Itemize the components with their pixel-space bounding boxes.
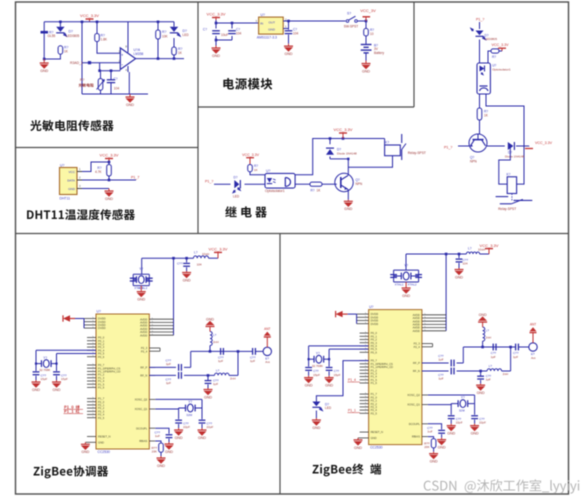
wire xosc q1 (terminal)	[428, 404, 451, 406]
led D2 branch	[173, 22, 175, 59]
ground (32k left) (coordinator)	[32, 380, 41, 392]
svg-text:L?: L?	[486, 329, 490, 333]
svg-text:RBIAS: RBIAS	[139, 439, 147, 443]
IC U6 right pin stubs	[149, 318, 173, 441]
svg-text:2nH: 2nH	[486, 336, 492, 340]
node VCC_3.3V (opto drive)	[242, 153, 260, 164]
node VCC_3.3V (relay coil)	[334, 127, 353, 138]
svg-text:U?: U?	[261, 13, 265, 17]
ground (relay driver)	[344, 200, 353, 211]
svg-text:U?: U?	[369, 305, 373, 309]
ground (crystal loop) (terminal)	[402, 282, 411, 298]
svg-text:IN: IN	[260, 22, 263, 26]
crystal Y1 loop wires (coordinator)	[133, 258, 149, 285]
power mark (antenna) (terminal)	[530, 323, 537, 343]
resistor R12 (base, right)	[477, 108, 489, 134]
svg-text:GND: GND	[362, 69, 370, 73]
svg-text:GND: GND	[68, 187, 76, 191]
svg-text:U?: U?	[60, 163, 64, 167]
ground (32k right) (terminal)	[325, 376, 334, 388]
svg-text:P1_?: P1_?	[444, 145, 452, 149]
svg-text:8: 8	[125, 44, 127, 48]
crystal Y2 32.768K (terminal)	[308, 352, 331, 368]
svg-text:1pF: 1pF	[491, 355, 496, 359]
ground (32k left) (terminal)	[304, 376, 313, 388]
divider: bottom of photoresistor sensor box	[16, 147, 199, 149]
svg-text:Diode 1N4148: Diode 1N4148	[505, 155, 525, 159]
wire 32k xtal top (coordinator)	[36, 350, 96, 371]
wire regulator input rail	[215, 20, 259, 24]
svg-text:VCC: VCC	[68, 170, 75, 174]
IC U7 right pin names	[407, 313, 420, 439]
svg-text:32.768K: 32.768K	[39, 368, 50, 372]
capacitor C (RF_N series) (terminal)	[438, 368, 454, 381]
wire op-amp output	[136, 57, 184, 60]
inductor L (RF_N series) (terminal)	[487, 364, 508, 376]
svg-text:CC2530: CC2530	[370, 446, 383, 450]
svg-text:D?: D?	[234, 176, 238, 180]
crystal Y1 32MHz (coordinator)	[133, 267, 149, 290]
ground (32M right) (terminal)	[470, 424, 479, 436]
svg-text:1: 1	[79, 167, 81, 171]
svg-text:ANT: ANT	[264, 327, 270, 331]
capacitor C (xtal right) (coordinator)	[146, 278, 153, 281]
ground (RBIAS) (terminal)	[429, 452, 438, 464]
svg-text:15pF: 15pF	[334, 373, 341, 377]
resistor R (RBIAS 20K) (coordinator)	[151, 441, 163, 456]
svg-text:1uF: 1uF	[427, 430, 432, 434]
wire opto collector up-over	[295, 137, 385, 175]
IC U7 left pin stubs	[357, 313, 369, 438]
wire RF top rail (coordinator)	[191, 350, 240, 353]
led D7 (terminal indicator)	[312, 402, 331, 411]
svg-text:P0_6: P0_6	[98, 355, 105, 359]
wire top rail (terminal)	[406, 253, 489, 256]
svg-text:20K: 20K	[152, 450, 157, 454]
wire relay K2 feed	[499, 146, 511, 184]
title: ZigBee协调器	[33, 466, 108, 479]
svg-text:Optoisolator1: Optoisolator1	[265, 189, 285, 193]
crystal Y2 32.768K (coordinator)	[35, 356, 58, 372]
svg-text:DCOUPL: DCOUPL	[136, 426, 148, 430]
transistor Q1 NPN	[335, 159, 363, 200]
IC U6 CC2530 body	[96, 310, 149, 455]
svg-text:GND: GND	[198, 436, 206, 440]
svg-text:SW-SPST: SW-SPST	[344, 24, 359, 28]
wire RF junction drop (terminal)	[510, 347, 512, 371]
svg-text:10uH: 10uH	[202, 252, 209, 256]
svg-text:1.8K: 1.8K	[101, 37, 108, 41]
wire RF junction drop (coordinator)	[237, 351, 239, 375]
svg-text:32M: 32M	[459, 409, 465, 413]
inductor L (RF_N series) (coordinator)	[215, 369, 236, 381]
svg-text:4.7K: 4.7K	[95, 170, 102, 174]
svg-text:104: 104	[293, 31, 299, 35]
title: 继电器	[225, 206, 267, 217]
svg-text:Y?: Y?	[43, 356, 47, 360]
svg-text:C?: C?	[203, 27, 207, 31]
svg-text:P1_1: P1_1	[348, 409, 356, 413]
svg-text:K?: K?	[385, 141, 389, 145]
wire antenna feed (terminal)	[511, 346, 516, 348]
net label P1_7	[131, 175, 139, 179]
node VCC_3V (battery side)	[360, 8, 376, 21]
svg-text:4: 4	[125, 68, 127, 72]
svg-text:1pF: 1pF	[250, 359, 255, 363]
divider: right edge of photoresistor/DHT11 column	[197, 2, 199, 234]
wire 32k xtal bottom (coordinator)	[57, 354, 97, 372]
svg-text:GND: GND	[471, 432, 479, 436]
svg-text:XOSC_Q1: XOSC_Q1	[135, 407, 148, 411]
wire DHT11 gnd	[82, 188, 109, 190]
resistor R10 base	[310, 182, 337, 193]
title: 电源模块	[223, 78, 272, 90]
capacitor C (DCOUPL) (coordinator)	[154, 428, 172, 442]
svg-text:OUT: OUT	[268, 20, 275, 24]
capacitor C (RF_P series) (terminal)	[438, 354, 454, 366]
svg-text:L?: L?	[213, 333, 217, 337]
wire 32k xtal bottom (terminal)	[329, 349, 369, 367]
svg-text:D?: D?	[69, 30, 73, 34]
svg-text:GND: GND	[175, 436, 183, 440]
svg-text:GND: GND	[137, 298, 145, 302]
ground (RBIAS) (coordinator)	[157, 456, 166, 468]
antenna E1 (terminal)	[529, 343, 537, 360]
ground (RF shunt cap) (terminal)	[476, 384, 485, 395]
svg-text:10uH: 10uH	[478, 248, 485, 252]
svg-text:1K: 1K	[254, 168, 258, 172]
svg-text:1pF: 1pF	[213, 382, 218, 386]
ground (RF shunt cap) (coordinator)	[204, 388, 213, 399]
svg-text:1K: 1K	[317, 189, 322, 193]
svg-text:GND: GND	[438, 446, 446, 450]
capacitor C decoupling (terminal)	[456, 254, 469, 268]
capacitor C (32M right) (coordinator)	[199, 408, 214, 429]
crystal Y3 32M (terminal)	[451, 396, 474, 413]
capacitor C (32k right) (coordinator)	[53, 372, 68, 381]
svg-text:VCC_3.3V: VCC_3.3V	[535, 141, 553, 145]
label R4 光敏电阻	[79, 78, 94, 87]
wire led to opto	[245, 183, 266, 185]
net label P1_4 (terminal)	[348, 378, 361, 382]
wire supply bus drop (coordinator)	[173, 258, 175, 335]
capacitor C1 (op-amp filter)	[107, 69, 120, 94]
svg-text:XOSC_Q1: XOSC_Q1	[407, 403, 420, 407]
svg-text:C?: C?	[114, 77, 118, 81]
wire right loop top	[486, 94, 524, 184]
title: DHT11温湿度传感器	[27, 209, 135, 220]
capacitor C (antenna series) (terminal)	[513, 344, 519, 359]
capacitor C (RF_P series) (coordinator)	[165, 359, 181, 371]
svg-text:GND: GND	[98, 440, 104, 444]
wire 32k xtal top (terminal)	[309, 346, 369, 367]
svg-text:AVDD: AVDD	[140, 333, 147, 337]
svg-text:VCC_3.3V: VCC_3.3V	[242, 153, 260, 157]
svg-text:GND: GND	[268, 27, 276, 31]
svg-text:DVDD: DVDD	[98, 326, 106, 330]
svg-text:15pF: 15pF	[61, 377, 68, 381]
wire collector to diode	[487, 145, 512, 147]
IC U7 left pin names	[371, 312, 393, 440]
capacitor C (32M right) (terminal)	[471, 404, 486, 425]
switch S1 SW-SPST	[344, 12, 359, 29]
divider: between ZigBee coordinator and terminal boxes	[279, 234, 281, 495]
svg-text:GND: GND	[430, 460, 438, 464]
svg-text:15pF: 15pF	[313, 373, 320, 377]
wire mid vertical (op-amp supply column)	[81, 21, 84, 95]
wire VDD bus (U7)	[348, 314, 357, 324]
title: ZigBee终端	[312, 464, 381, 477]
svg-text:2nH: 2nH	[503, 372, 509, 376]
wire RF_N path (terminal)	[422, 370, 511, 372]
capacitor C (DCOUPL) (terminal)	[427, 424, 445, 438]
capacitor C (RF shunt) (coordinator)	[205, 374, 219, 388]
watermark: CSDN @沐欣工作室_lyyiyi	[424, 479, 580, 493]
optocoupler U5 (vertical)	[477, 63, 511, 94]
svg-text:22pF: 22pF	[479, 421, 486, 425]
crystal Y1 loop wires (terminal)	[394, 254, 419, 282]
ground (terminal decoupling)	[455, 268, 464, 279]
svg-text:AMS1117-3.3: AMS1117-3.3	[257, 36, 277, 40]
wire bottom rail (photo sensor)	[82, 72, 148, 94]
ground (32M left) (coordinator)	[174, 428, 183, 440]
svg-text:32M: 32M	[186, 413, 192, 417]
wire feedback lower	[98, 63, 120, 72]
inductor L (RF shunt) (coordinator)	[210, 332, 219, 352]
svg-text:DCOUPL: DCOUPL	[409, 422, 421, 426]
svg-text:Relay-SPST: Relay-SPST	[498, 207, 516, 211]
svg-text:GND: GND	[477, 391, 485, 395]
svg-text:RESET_N: RESET_N	[98, 435, 110, 439]
wire top rail (photo sensor)	[44, 21, 174, 23]
wire VDD bus (U6)	[75, 319, 84, 329]
svg-text:GND: GND	[305, 384, 313, 388]
inductor L2 (terminal supply)	[466, 246, 485, 254]
svg-text:GND: GND	[40, 69, 48, 73]
svg-text:NPN: NPN	[356, 182, 363, 186]
svg-text:P1_?: P1_?	[205, 180, 213, 184]
svg-text:1K: 1K	[484, 114, 489, 118]
svg-text:1pF: 1pF	[218, 359, 223, 363]
crystal Y3 32M (coordinator)	[179, 400, 202, 417]
optocoupler U4	[265, 169, 295, 193]
IC U7 right pin stubs	[422, 313, 446, 436]
capacitor C (32M left) (terminal)	[448, 404, 463, 425]
capacitor C (32k left) (coordinator)	[33, 372, 48, 381]
wire RF_N path (coordinator)	[149, 374, 238, 376]
ground (DHT11)	[105, 189, 114, 201]
svg-text:DATA: DATA	[67, 178, 76, 182]
title: 光敏电阻传感器	[30, 120, 113, 131]
op-amp U1A LM358	[119, 22, 144, 72]
svg-text:2: 2	[79, 176, 81, 180]
resistor R11 (right opto series)	[488, 49, 502, 63]
node VCC_3.3V (coordinator)	[209, 247, 228, 259]
wire top rail (coordinator)	[142, 257, 218, 260]
IC U6 left pin names	[98, 317, 120, 445]
svg-text:Diode 1N4148: Diode 1N4148	[337, 151, 357, 155]
svg-text:VCC_3.3V: VCC_3.3V	[209, 247, 228, 252]
capacitor C1 input electrolytic	[203, 27, 228, 36]
svg-text:L?: L?	[489, 364, 493, 368]
svg-text:2nH: 2nH	[230, 377, 236, 381]
wire xosc q2 (terminal)	[428, 395, 475, 404]
svg-text:1pF: 1pF	[166, 381, 171, 385]
svg-text:XOSC_Q2: XOSC_Q2	[407, 393, 420, 397]
wire RF_P path (coordinator)	[149, 351, 190, 367]
svg-text:1pF: 1pF	[438, 377, 443, 381]
wire opto out to resistor	[479, 94, 481, 108]
wire supply bus drop (terminal)	[445, 254, 447, 331]
svg-text:VCC_3.3V: VCC_3.3V	[100, 153, 119, 158]
wire to antenna (terminal)	[519, 346, 529, 348]
svg-text:3: 3	[79, 184, 81, 188]
svg-text:Y?: Y?	[404, 264, 408, 268]
svg-text:GND: GND	[402, 294, 410, 298]
resistor R6	[172, 47, 183, 55]
resistor R8 pull-up	[95, 162, 111, 180]
net label P1_1 (terminal)	[348, 409, 361, 413]
capacitor C (32k left) (terminal)	[305, 368, 320, 377]
ground (power module input)	[212, 46, 221, 58]
svg-text:VCC_3.3V: VCC_3.3V	[207, 12, 226, 17]
node VCC_3.3V input (power module)	[207, 12, 226, 20]
resistor R (RBIAS 20K) (terminal)	[424, 437, 436, 452]
svg-text:P2_5: P2_5	[371, 411, 378, 415]
ground up (RF shunt L) (coordinator)	[206, 318, 215, 332]
svg-text:C??: C??	[177, 261, 183, 265]
svg-text:LED: LED	[183, 33, 190, 37]
svg-text:Relay-SPST: Relay-SPST	[408, 151, 426, 155]
svg-text:GND: GND	[312, 426, 320, 430]
svg-text:P2_5: P2_5	[98, 416, 105, 420]
svg-text:GND: GND	[447, 432, 455, 436]
ground (32k right) (coordinator)	[52, 380, 61, 392]
ground (coordinator GND pin)	[81, 442, 90, 454]
net label R3AD-1	[70, 61, 83, 65]
svg-text:VCC_3V: VCC_3V	[360, 8, 376, 13]
svg-text:GND: GND	[126, 103, 134, 107]
node VCC_3.3V (terminal)	[480, 243, 499, 254]
photoresistor R4 光敏电阻	[97, 71, 105, 94]
diode D6 (right)	[505, 142, 529, 159]
svg-text:RF_N: RF_N	[140, 374, 147, 378]
svg-text:Ant: Ant	[265, 360, 270, 364]
svg-text:P1_4: P1_4	[348, 378, 356, 382]
svg-text:GND: GND	[479, 313, 487, 317]
wire RF_P path (terminal)	[422, 347, 463, 363]
ground (DCOUPL) (terminal)	[437, 438, 446, 450]
capacitor C (RF mid series) (coordinator)	[218, 348, 224, 363]
svg-text:1pF: 1pF	[438, 358, 443, 362]
svg-text:P2_4: P2_4	[141, 349, 148, 353]
svg-text:RF_P: RF_P	[413, 361, 420, 365]
svg-text:DVDD: DVDD	[371, 322, 379, 326]
wire to antenna (coordinator)	[256, 350, 264, 352]
svg-text:S?: S?	[347, 12, 351, 16]
svg-text:104: 104	[197, 262, 202, 266]
svg-text:20K: 20K	[424, 445, 429, 449]
svg-text:VCC_3.3V: VCC_3.3V	[492, 43, 510, 47]
flyback diode D4	[326, 139, 357, 159]
capacitor C (RF mid series) (terminal)	[491, 344, 497, 359]
wire xosc q2 (coordinator)	[155, 399, 202, 408]
svg-text:GND: GND	[344, 207, 352, 211]
svg-text:Battery: Battery	[374, 51, 385, 55]
ground (terminal GND pin)	[354, 438, 363, 450]
svg-text:ANT: ANT	[530, 323, 536, 327]
antenna E1 (coordinator)	[263, 347, 271, 364]
led D1	[56, 22, 79, 38]
IC U7 CC2530 body	[369, 305, 422, 450]
capacitor C (RF shunt) (terminal)	[477, 370, 491, 384]
ground (DCOUPL) (coordinator)	[165, 442, 174, 454]
wire RF top rail (terminal)	[463, 346, 512, 349]
wire battery column	[365, 21, 367, 43]
svg-text:DHT11: DHT11	[60, 196, 71, 200]
node VCC_3.3V (DHT11)	[100, 153, 119, 161]
resistor R5 branch	[157, 21, 160, 59]
sensor U3 DHT11 body	[60, 163, 78, 200]
svg-text:GND: GND	[81, 450, 89, 454]
svg-text:LED: LED	[233, 194, 240, 198]
capacitor C (RF_N series) (coordinator)	[165, 372, 181, 385]
svg-text:P0_6: P0_6	[371, 350, 378, 354]
svg-text:2nH: 2nH	[213, 340, 219, 344]
node VCC_3.3V power port (photo sensor)	[80, 13, 99, 22]
transistor Q2 NPN (right)	[469, 134, 487, 163]
svg-text:P1_7: P1_7	[131, 175, 139, 179]
led D3 (relay input indicator)	[233, 176, 240, 199]
relay K1 coil	[348, 139, 400, 168]
svg-text:U?: U?	[266, 169, 270, 173]
svg-text:104: 104	[236, 31, 242, 35]
svg-text:104: 104	[463, 262, 468, 266]
svg-text:VCC_3.3V: VCC_3.3V	[480, 243, 499, 248]
resistor R1	[95, 33, 108, 41]
wire switch to battery node	[357, 20, 367, 23]
svg-text:22pF: 22pF	[207, 425, 214, 429]
wire base resistor path	[295, 183, 310, 185]
svg-text:GL55: GL55	[48, 34, 56, 38]
node VCC_3.3V (right diode)	[525, 141, 553, 148]
svg-text:AVDD: AVDD	[413, 329, 420, 333]
svg-text:Optoisolator1: Optoisolator1	[492, 67, 511, 71]
svg-text:GND: GND	[455, 275, 463, 279]
ground (32M left) (terminal)	[447, 424, 456, 436]
svg-text:L?: L?	[194, 251, 198, 255]
capacitor C decoupling (coordinator)	[177, 258, 202, 271]
svg-text:GND: GND	[206, 318, 214, 322]
net label P1_0 (relay input)	[205, 180, 231, 185]
svg-text:R?: R?	[311, 189, 315, 193]
svg-text:XTAL2: XTAL2	[408, 283, 417, 287]
svg-text:1pF: 1pF	[486, 378, 491, 382]
svg-text:GND: GND	[212, 54, 220, 58]
svg-text:GND: GND	[204, 395, 212, 399]
svg-text:R?: R?	[492, 55, 496, 59]
svg-text:VCC_3.3V: VCC_3.3V	[80, 13, 99, 18]
svg-text:GND: GND	[32, 388, 40, 392]
svg-text:R?: R?	[162, 30, 166, 34]
svg-text:L?: L?	[468, 246, 472, 250]
wire regulator output	[283, 20, 345, 23]
svg-text:XTAL1: XTAL1	[395, 283, 404, 287]
relay K2 coil (vertical)	[507, 172, 517, 193]
svg-text:1K: 1K	[178, 51, 183, 55]
svg-text:32.768K: 32.768K	[312, 364, 323, 368]
svg-text:22pF: 22pF	[183, 425, 190, 429]
